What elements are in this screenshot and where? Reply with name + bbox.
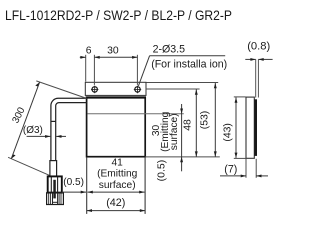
dim 42 line [87, 210, 145, 212]
svg-text:(53): (53) [200, 111, 211, 129]
svg-text:LFL-1012RD2-P / SW2-P / BL2-P: LFL-1012RD2-P / SW2-P / BL2-P / GR2-P [5, 8, 232, 23]
svg-text:41: 41 [112, 157, 124, 168]
dim 30 vertical outside arrows [181, 104, 183, 171]
svg-text:30: 30 [107, 46, 119, 57]
cable inner line [56, 103, 87, 161]
svg-text:48: 48 [183, 119, 194, 131]
svg-text:(42): (42) [106, 197, 125, 209]
dim 300 ext line bottom [8, 157, 50, 175]
svg-text:(0.5): (0.5) [155, 160, 167, 182]
label underline [150, 55, 226, 57]
dim 0.5 tail arrow [62, 191, 86, 193]
svg-text:(Ø3): (Ø3) [23, 125, 43, 136]
svg-text:surface): surface) [99, 180, 136, 191]
svg-text:(For installa ion): (For installa ion) [151, 59, 227, 71]
svg-text:6: 6 [86, 46, 92, 57]
body rectangle [87, 97, 146, 156]
connector slot bottom line [53, 201, 58, 203]
body top edge thick [86, 96, 146, 98]
side view emitting window [254, 99, 257, 156]
dim 0.8 ext lines [255, 59, 257, 97]
cable joint [51, 120, 56, 122]
connector center bar [53, 180, 56, 199]
leader to hole H2 [138, 56, 149, 86]
text 30 emitting surface rotated [151, 111, 180, 152]
mounting hole H1 [91, 86, 98, 94]
emitting surface top line + extension right [87, 113, 183, 115]
bottom ext line right [144, 157, 146, 214]
svg-text:(0.8): (0.8) [247, 41, 270, 53]
dim 300 ext line top [36, 81, 86, 99]
dia3 right arrow [56, 135, 66, 137]
svg-text:(43): (43) [223, 123, 234, 141]
top dim: ext lines [86, 55, 138, 85]
dim 43 vertical [235, 97, 237, 157]
connector body [48, 176, 62, 192]
dim 43 ext lines [234, 96, 246, 98]
dia3 left arrow [27, 135, 51, 137]
dim 300 line [11, 82, 39, 159]
svg-text:surface): surface) [169, 113, 180, 150]
dim 53 vertical [214, 83, 216, 157]
svg-text:(Emitting: (Emitting [97, 169, 138, 180]
dim 7 arrows [220, 175, 246, 177]
dim 6 tail arrow [80, 56, 86, 58]
side view body [246, 97, 254, 158]
svg-text:(7): (7) [224, 163, 237, 175]
bottom ext line left [86, 157, 88, 214]
svg-text:2-Ø3.5: 2-Ø3.5 [153, 43, 185, 55]
mounting hole H2 [134, 86, 141, 94]
connector ferrule [50, 161, 57, 177]
connector inner slot [50, 177, 52, 193]
right ext line 53 [146, 82, 218, 84]
dim 7 ext lines [245, 159, 247, 178]
connector crimp feet block [47, 193, 64, 205]
cable outer line [51, 98, 87, 160]
dim 48 vertical [195, 89, 197, 156]
flange plate [85, 82, 146, 95]
svg-text:(0.5): (0.5) [63, 177, 84, 188]
dim 41 line [88, 191, 145, 193]
dim 30 line [94, 56, 137, 58]
dim 0.8 arrows [245, 58, 255, 60]
right ext line 48 [146, 88, 200, 90]
right ext line bottom [145, 156, 220, 158]
